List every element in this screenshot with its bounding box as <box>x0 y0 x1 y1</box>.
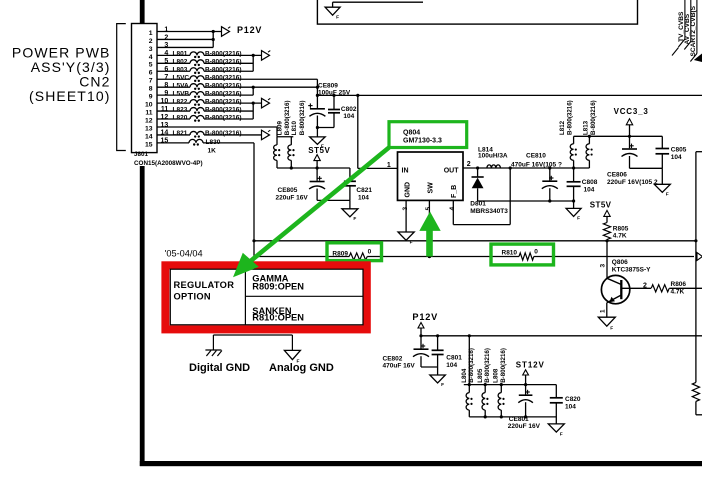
svg-text:6: 6 <box>164 66 168 73</box>
svg-text:470uF 16V(105 ?: 470uF 16V(105 ? <box>511 162 562 169</box>
svg-text:B-800(3216): B-800(3216) <box>205 67 242 74</box>
svg-text:3: 3 <box>402 207 409 211</box>
svg-text:104: 104 <box>358 194 369 201</box>
svg-text:C821: C821 <box>356 187 372 194</box>
svg-text:F: F <box>577 216 580 222</box>
svg-text:14: 14 <box>161 130 169 137</box>
svg-text:REGULATOR: REGULATOR <box>174 280 235 290</box>
svg-text:100uH/3A: 100uH/3A <box>478 153 508 160</box>
svg-text:C801: C801 <box>446 355 462 362</box>
svg-text:12: 12 <box>145 117 153 124</box>
svg-text:KTC3875S-Y: KTC3875S-Y <box>612 267 651 274</box>
svg-text:GM7130-3.3: GM7130-3.3 <box>403 138 442 145</box>
svg-text:2: 2 <box>643 283 647 290</box>
svg-text:B-800(3216): B-800(3216) <box>205 75 242 82</box>
svg-text:P12V: P12V <box>412 312 438 322</box>
svg-text:5: 5 <box>425 207 432 211</box>
svg-text:3: 3 <box>149 46 153 53</box>
svg-text:ST5V: ST5V <box>308 146 330 155</box>
svg-text:Q806: Q806 <box>612 259 628 266</box>
svg-text:L812: L812 <box>559 120 566 135</box>
svg-text:B-800(3216): B-800(3216) <box>484 348 491 383</box>
svg-text:L802: L802 <box>173 59 188 66</box>
svg-text:220uF 16V(105 2: 220uF 16V(105 2 <box>607 179 658 186</box>
svg-text:F: F <box>353 216 356 222</box>
svg-text:CE805: CE805 <box>278 187 298 194</box>
svg-text:B-800(3216): B-800(3216) <box>299 100 306 135</box>
svg-text:J801: J801 <box>134 151 149 158</box>
svg-text:L803: L803 <box>173 67 188 74</box>
svg-text:ST12V: ST12V <box>516 360 545 369</box>
svg-text:B-800(3216): B-800(3216) <box>205 90 242 97</box>
svg-text:L821: L821 <box>173 130 188 137</box>
svg-text:B-800(3216): B-800(3216) <box>205 114 242 121</box>
svg-text:L805: L805 <box>477 368 484 383</box>
svg-text:B-800(3216): B-800(3216) <box>500 348 507 383</box>
svg-text:L813: L813 <box>582 120 589 135</box>
svg-text:IN: IN <box>402 167 409 174</box>
svg-text:R810:OPEN: R810:OPEN <box>252 313 304 323</box>
svg-text:1: 1 <box>387 162 391 169</box>
svg-text:7: 7 <box>149 78 153 85</box>
svg-text:9: 9 <box>149 94 153 101</box>
svg-text:L801: L801 <box>173 51 188 58</box>
svg-text:CE809: CE809 <box>318 82 338 89</box>
svg-text:9: 9 <box>164 90 168 97</box>
svg-text:104: 104 <box>565 404 576 411</box>
svg-text:L822: L822 <box>173 98 188 105</box>
svg-text:0: 0 <box>368 249 372 256</box>
svg-text:1: 1 <box>599 309 606 313</box>
svg-text:6: 6 <box>149 70 153 77</box>
svg-text:104: 104 <box>584 187 595 194</box>
svg-text:15: 15 <box>145 141 153 148</box>
svg-text:4.7K: 4.7K <box>613 233 627 240</box>
svg-text:Analog GND: Analog GND <box>269 362 334 374</box>
svg-text:B-800(3216): B-800(3216) <box>205 51 242 58</box>
svg-text:F: F <box>666 192 669 198</box>
svg-text:MBRS340T3: MBRS340T3 <box>470 208 508 215</box>
svg-text:R810: R810 <box>502 250 518 257</box>
svg-text:L820: L820 <box>173 114 188 121</box>
svg-text:VCC3_3: VCC3_3 <box>614 107 649 116</box>
svg-text:ST5V: ST5V <box>590 200 612 209</box>
svg-text:4: 4 <box>149 54 153 61</box>
svg-text:SW: SW <box>428 182 435 194</box>
svg-text:L808: L808 <box>493 368 500 383</box>
svg-text:(SHEET10): (SHEET10) <box>29 88 110 104</box>
svg-text:104: 104 <box>343 113 354 120</box>
svg-text:2: 2 <box>467 161 471 168</box>
svg-text:B-800(3216): B-800(3216) <box>590 100 597 135</box>
svg-text:L810: L810 <box>291 121 298 136</box>
svg-text:2: 2 <box>164 34 168 41</box>
svg-text:1: 1 <box>149 30 153 37</box>
svg-text:B-800(3216): B-800(3216) <box>284 100 291 135</box>
svg-text:R809:OPEN: R809:OPEN <box>252 281 304 291</box>
svg-text:R805: R805 <box>613 225 629 232</box>
svg-text:F: F <box>560 431 563 437</box>
svg-text:GND: GND <box>405 182 412 198</box>
svg-text:104: 104 <box>671 154 682 161</box>
svg-text:11: 11 <box>145 109 152 116</box>
svg-text:C802: C802 <box>341 106 357 113</box>
svg-text:4.7K: 4.7K <box>671 288 685 295</box>
svg-text:13: 13 <box>161 122 169 129</box>
svg-text:1: 1 <box>164 26 168 33</box>
svg-text:'05-04/04: '05-04/04 <box>165 249 203 259</box>
svg-text:2: 2 <box>149 38 153 45</box>
svg-text:4: 4 <box>449 207 456 211</box>
svg-text:B-800(3216): B-800(3216) <box>468 348 475 383</box>
svg-text:4: 4 <box>164 50 168 57</box>
svg-text:CE806: CE806 <box>607 172 627 179</box>
svg-text:104: 104 <box>446 362 457 369</box>
svg-text:R806: R806 <box>671 281 687 288</box>
svg-text:470uF 16V: 470uF 16V <box>383 363 416 370</box>
svg-text:220uF 16V: 220uF 16V <box>276 194 309 201</box>
svg-text:R809: R809 <box>332 250 348 257</box>
svg-text:F: F <box>336 14 339 20</box>
svg-text:C820: C820 <box>565 396 581 403</box>
svg-text:OUT: OUT <box>444 167 460 174</box>
svg-text:B-800(3216): B-800(3216) <box>205 82 242 89</box>
svg-text:CON15(A2008WVO-4P): CON15(A2008WVO-4P) <box>134 160 203 167</box>
svg-text:L5VA: L5VA <box>173 82 189 89</box>
svg-text:1K: 1K <box>208 147 217 154</box>
svg-text:L830: L830 <box>206 139 221 146</box>
svg-text:L5VB: L5VB <box>173 90 190 97</box>
svg-text:14: 14 <box>145 133 153 140</box>
svg-text:L823: L823 <box>173 106 188 113</box>
svg-text:CE801: CE801 <box>509 416 529 423</box>
svg-text:CE802: CE802 <box>383 355 403 362</box>
svg-text:100uF 25V: 100uF 25V <box>318 90 351 97</box>
svg-text:F: F <box>441 382 444 388</box>
svg-text:0: 0 <box>534 249 538 256</box>
svg-text:OPTION: OPTION <box>174 292 211 302</box>
svg-text:CE810: CE810 <box>526 153 546 160</box>
svg-text:10: 10 <box>161 98 169 105</box>
svg-text:3: 3 <box>164 42 168 49</box>
svg-text:C805: C805 <box>671 147 687 154</box>
svg-text:5: 5 <box>164 58 168 65</box>
svg-text:L804: L804 <box>461 368 468 383</box>
svg-text:F: F <box>610 325 613 331</box>
svg-text:13: 13 <box>145 125 153 132</box>
svg-text:5: 5 <box>149 62 153 69</box>
svg-text:7: 7 <box>164 74 168 81</box>
svg-text:8: 8 <box>164 82 168 89</box>
svg-text:11: 11 <box>161 106 169 113</box>
svg-text:B-800(3216): B-800(3216) <box>205 130 242 137</box>
svg-text:3: 3 <box>600 264 607 268</box>
svg-text:B-800(3216): B-800(3216) <box>205 59 242 66</box>
svg-text:D801: D801 <box>470 201 486 208</box>
svg-text:P12V: P12V <box>237 25 262 35</box>
svg-text:B-800(3216): B-800(3216) <box>567 100 574 135</box>
svg-text:C808: C808 <box>582 179 598 186</box>
svg-text:8: 8 <box>149 86 153 93</box>
svg-text:Digital GND: Digital GND <box>189 362 250 374</box>
svg-text:220uF 16V: 220uF 16V <box>508 423 541 430</box>
svg-text:L5VC: L5VC <box>173 75 190 82</box>
svg-text:12: 12 <box>161 114 169 121</box>
svg-text:F_B: F_B <box>451 185 458 198</box>
svg-text:B-800(3216): B-800(3216) <box>205 98 242 105</box>
svg-text:15: 15 <box>161 138 169 145</box>
svg-text:10: 10 <box>145 102 153 109</box>
svg-text:Q804: Q804 <box>403 129 420 136</box>
svg-text:L809: L809 <box>277 121 284 136</box>
svg-text:B-800(3216): B-800(3216) <box>205 106 242 113</box>
